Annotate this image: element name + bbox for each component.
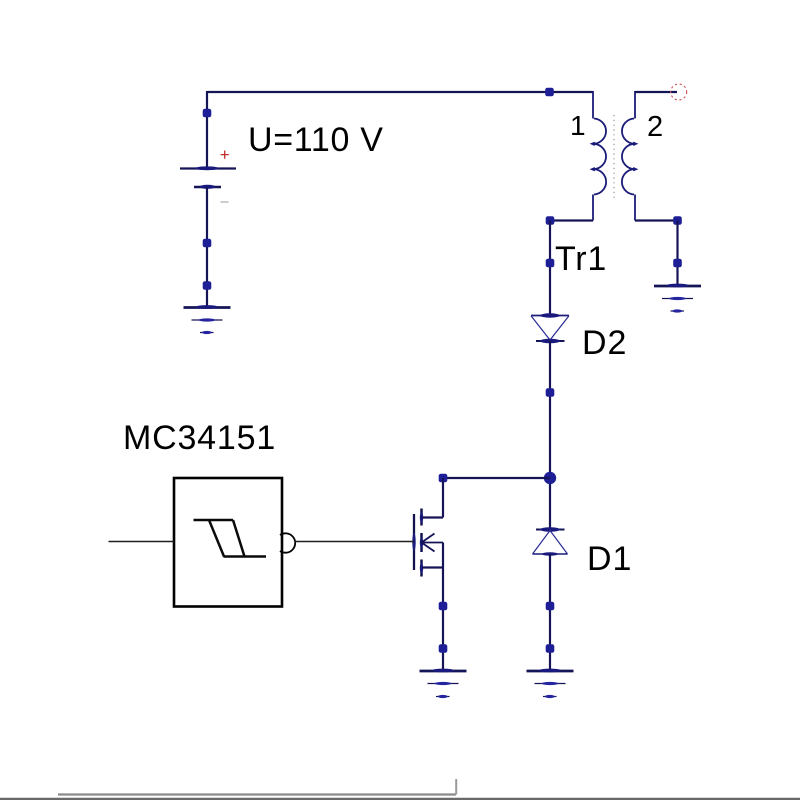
wire down to transformer ground: [676, 221, 678, 287]
wire source to ground: [442, 568, 444, 672]
winding 1 cusp spikes: [590, 142, 595, 146]
node dot above D2: [546, 259, 555, 268]
open terminal (red dashed circle): [671, 84, 687, 100]
svg-text:MC34151: MC34151: [123, 419, 276, 457]
wire body-source tie: [442, 543, 444, 568]
node dot (lower): [546, 644, 555, 653]
ground (D1): [527, 669, 574, 699]
node dot secondary bottom: [673, 216, 682, 225]
svg-text:U=110 V: U=110 V: [248, 121, 384, 159]
ground (MOSFET source): [420, 669, 467, 699]
node junction dot on top bus: [545, 88, 554, 97]
wire secondary top to open terminal: [635, 91, 677, 93]
transistor Q1 drain stub: [422, 516, 444, 518]
wire secondary bottom to ground branch: [635, 219, 678, 221]
wire primary bottom to node: [550, 219, 593, 221]
wire driver input: [109, 541, 175, 543]
node dot source wire (lower): [439, 644, 448, 653]
battery minus sign (gray): [221, 201, 229, 203]
wire down to MOSFET drain: [442, 478, 444, 518]
transistor Q1 body stub with arrow: [422, 534, 444, 552]
svg-text:D1: D1: [587, 540, 632, 578]
window edge line (bottom, gray): [0, 798, 800, 800]
diode D1 (cathode up): [533, 527, 568, 556]
node dot on battery positive lead: [203, 109, 212, 118]
node dot on battery negative lead (upper): [203, 239, 212, 248]
transformer Tr1 primary winding (1): [593, 91, 606, 221]
wire drain branch horizontal: [443, 477, 550, 479]
node dot on ground wire: [673, 259, 682, 268]
battery B1 positive plate: [180, 166, 236, 170]
node dot on battery negative lead (lower): [203, 281, 212, 290]
wire battery positive lead: [206, 91, 208, 168]
node junction (big dot) drain/D1/D2: [544, 472, 556, 484]
svg-text:2: 2: [647, 111, 663, 143]
wire node down to D2 anode: [549, 221, 551, 316]
node dot source wire (upper): [439, 602, 448, 611]
wire D2 cathode to drain node: [549, 341, 551, 529]
battery plus sign (red): [221, 151, 229, 159]
page border line (inner, gray): [58, 793, 456, 795]
wire top bus from battery to transformer primary: [207, 91, 593, 93]
winding 2 cusp spikes: [633, 142, 638, 146]
driver U1 hysteresis symbol: [194, 520, 267, 557]
node dot (upper): [546, 602, 555, 611]
node dot primary bottom: [546, 216, 555, 225]
transistor Q1 (N-MOSFET) gate bar: [412, 514, 415, 570]
diode D2 (cathode down): [531, 313, 569, 343]
ground (battery): [184, 305, 231, 334]
ground (transformer secondary): [654, 284, 701, 313]
transistor Q1 source stub: [422, 566, 444, 568]
page border tick: [455, 779, 457, 795]
battery B1 negative plate: [194, 185, 221, 189]
wire battery negative lead: [206, 187, 208, 308]
svg-text:Tr1: Tr1: [555, 240, 607, 278]
svg-text:D2: D2: [582, 324, 627, 362]
node dot mid wire: [546, 388, 555, 397]
driver U1 inverting output bubble: [280, 533, 295, 552]
node dot at drain branch left: [439, 474, 448, 483]
wire driver output to gate: [295, 541, 415, 543]
transformer core (dotted): [613, 115, 615, 199]
transformer Tr1 secondary winding (2): [622, 91, 635, 221]
wire D1 anode to ground: [549, 554, 551, 671]
svg-text:1: 1: [570, 110, 586, 141]
transistor Q1 channel segments: [420, 509, 423, 577]
driver U1 box: [174, 478, 282, 607]
